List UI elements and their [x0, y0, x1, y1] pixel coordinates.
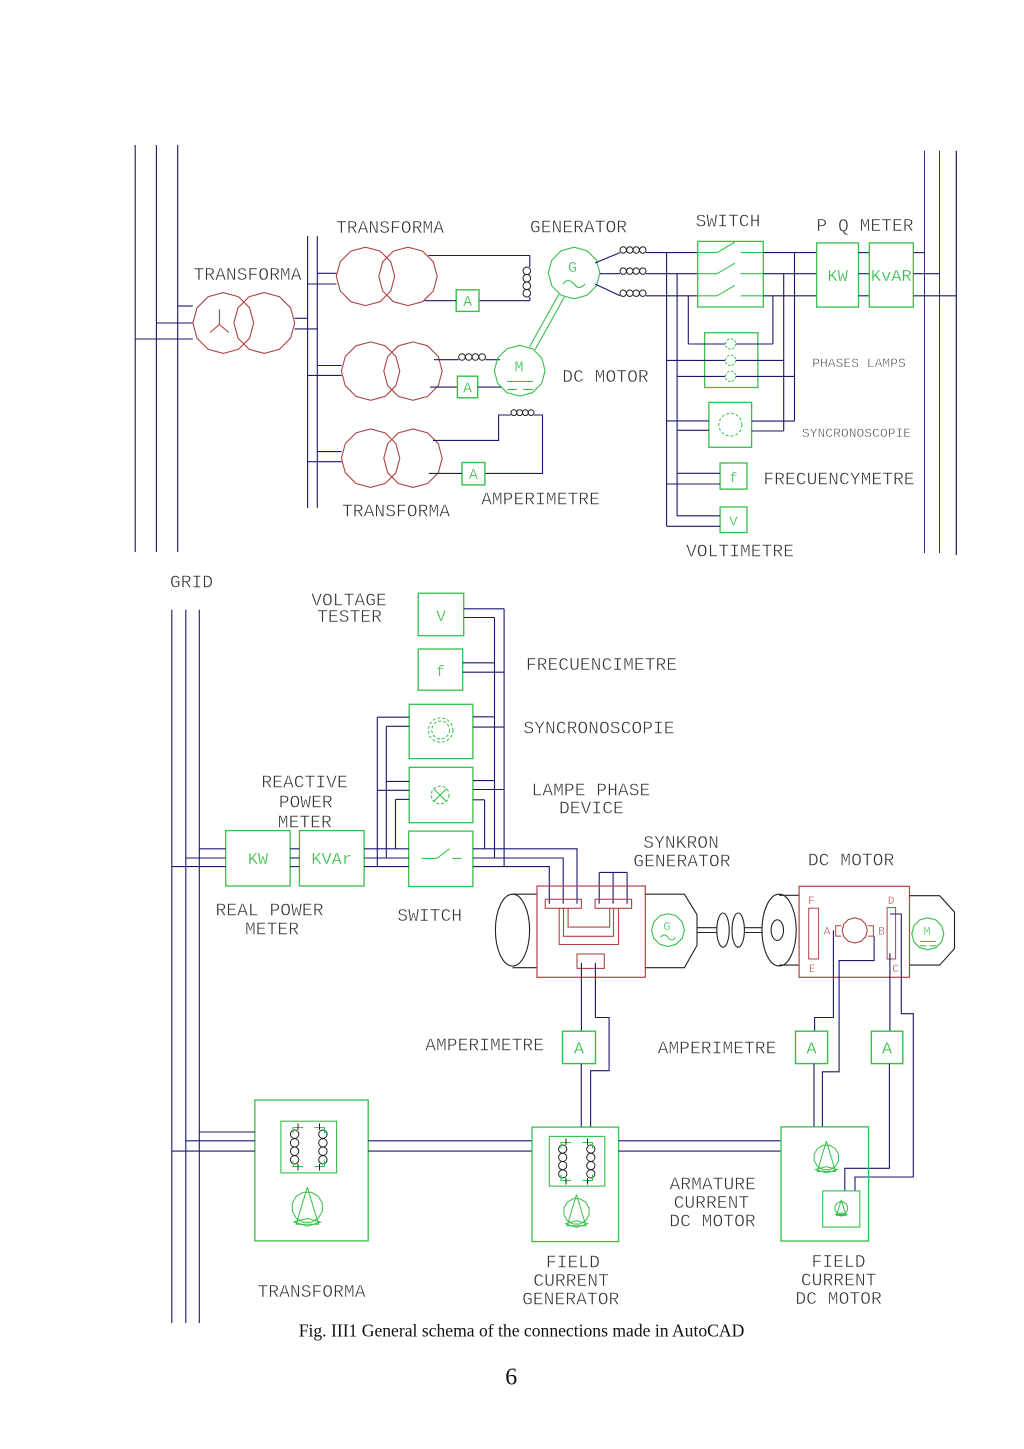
- svg-text:SWITCH: SWITCH: [696, 213, 761, 233]
- svg-text:GENERATOR: GENERATOR: [522, 1291, 619, 1311]
- svg-text:GRID: GRID: [170, 574, 213, 594]
- svg-text:AMPERIMETRE: AMPERIMETRE: [658, 1040, 777, 1060]
- svg-text:SYNKRON: SYNKRON: [643, 834, 719, 854]
- svg-text:6: 6: [505, 1365, 517, 1391]
- svg-text:SYNCRONOSCOPIE: SYNCRONOSCOPIE: [802, 426, 911, 441]
- svg-text:f: f: [729, 471, 737, 487]
- svg-text:FIELD: FIELD: [811, 1253, 865, 1273]
- svg-text:GENERATOR: GENERATOR: [530, 219, 627, 239]
- svg-text:M: M: [923, 925, 930, 939]
- svg-text:A: A: [824, 927, 831, 939]
- svg-text:FRECUENCYMETRE: FRECUENCYMETRE: [763, 471, 914, 491]
- svg-text:LAMPE PHASE: LAMPE PHASE: [531, 782, 650, 802]
- svg-text:DEVICE: DEVICE: [559, 800, 624, 820]
- svg-text:A: A: [469, 467, 478, 484]
- svg-text:DC MOTOR: DC MOTOR: [795, 1290, 882, 1310]
- svg-text:DC MOTOR: DC MOTOR: [669, 1213, 756, 1233]
- svg-text:P Q METER: P Q METER: [816, 217, 913, 237]
- svg-text:SWITCH: SWITCH: [397, 907, 462, 927]
- svg-text:A: A: [574, 1041, 585, 1060]
- svg-text:C: C: [892, 964, 899, 976]
- svg-text:VOLTIMETRE: VOLTIMETRE: [686, 543, 794, 563]
- svg-text:TRANSFORMA: TRANSFORMA: [193, 266, 301, 286]
- svg-text:POWER: POWER: [279, 794, 333, 814]
- svg-text:CURRENT: CURRENT: [801, 1272, 877, 1292]
- svg-text:KvAR: KvAR: [871, 268, 912, 287]
- svg-text:KW: KW: [248, 851, 269, 870]
- svg-text:AMPERIMETRE: AMPERIMETRE: [481, 491, 600, 511]
- svg-text:DC MOTOR: DC MOTOR: [808, 852, 895, 872]
- svg-text:Fig. III1 General schema of th: Fig. III1 General schema of the connecti…: [299, 1321, 745, 1341]
- svg-text:METER: METER: [278, 814, 332, 834]
- svg-text:GENERATOR: GENERATOR: [633, 853, 730, 873]
- svg-text:TRANSFORMA: TRANSFORMA: [342, 503, 450, 523]
- svg-text:FRECUENCIMETRE: FRECUENCIMETRE: [526, 656, 677, 676]
- svg-text:REACTIVE: REACTIVE: [261, 774, 347, 794]
- svg-text:CURRENT: CURRENT: [674, 1194, 750, 1214]
- svg-text:F: F: [808, 896, 815, 908]
- svg-text:A: A: [882, 1041, 893, 1060]
- svg-text:TESTER: TESTER: [317, 608, 382, 628]
- svg-text:TRANSFORMA: TRANSFORMA: [257, 1283, 365, 1303]
- svg-text:DC MOTOR: DC MOTOR: [562, 368, 649, 388]
- svg-text:REAL POWER: REAL POWER: [215, 902, 323, 922]
- svg-text:CURRENT: CURRENT: [533, 1272, 609, 1292]
- svg-text:B: B: [878, 927, 885, 939]
- svg-text:D: D: [888, 896, 895, 908]
- svg-text:G: G: [568, 260, 577, 277]
- svg-text:M: M: [514, 360, 523, 377]
- svg-text:G: G: [663, 920, 670, 934]
- svg-text:TRANSFORMA: TRANSFORMA: [336, 219, 444, 239]
- svg-text:KVAr: KVAr: [311, 851, 352, 870]
- svg-text:V: V: [436, 608, 446, 626]
- svg-text:AMPERIMETRE: AMPERIMETRE: [425, 1037, 544, 1057]
- svg-text:KW: KW: [827, 268, 848, 287]
- svg-text:SYNCRONOSCOPIE: SYNCRONOSCOPIE: [523, 720, 674, 740]
- svg-text:f: f: [436, 664, 445, 681]
- svg-text:A: A: [463, 380, 472, 397]
- svg-text:PHASES LAMPS: PHASES LAMPS: [812, 356, 906, 371]
- svg-text:FIELD: FIELD: [546, 1254, 600, 1274]
- svg-text:ARMATURE: ARMATURE: [669, 1176, 755, 1196]
- svg-text:E: E: [809, 964, 816, 976]
- svg-text:V: V: [729, 515, 738, 531]
- svg-text:METER: METER: [245, 921, 299, 941]
- svg-text:A: A: [463, 294, 472, 311]
- svg-text:A: A: [806, 1041, 817, 1060]
